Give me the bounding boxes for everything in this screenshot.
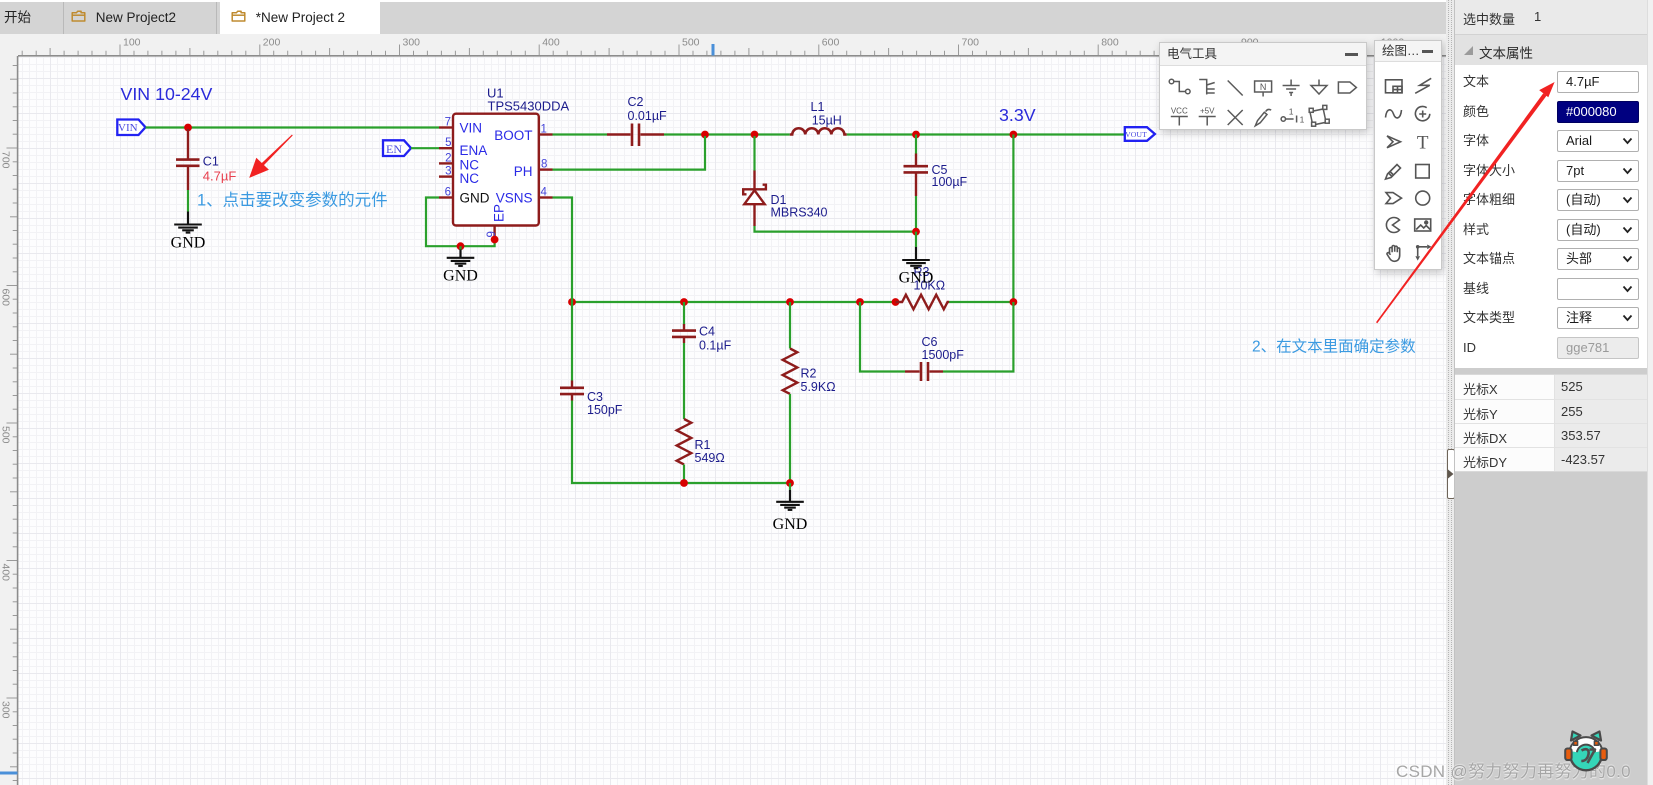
ground GND2	[443, 246, 478, 284]
wire C6 branch	[860, 302, 905, 372]
net port EN	[383, 140, 411, 156]
net port VIN	[117, 120, 145, 136]
pin 3 NC stub	[439, 175, 453, 177]
wire L1 to VOUT	[847, 133, 1125, 135]
pin 1 BOOT stub	[539, 133, 553, 135]
svg-text:1: 1	[1289, 107, 1294, 117]
junction R2 tap	[786, 298, 794, 306]
pin 7 VIN stub	[439, 126, 453, 128]
pin 6 GND stub	[439, 196, 453, 198]
junction VSNS corner	[568, 298, 576, 306]
pin 5 ENA stub	[439, 147, 453, 149]
wire BOOT to C2	[553, 133, 608, 135]
wire C5 to ground node	[915, 196, 917, 232]
junction R3 left	[892, 298, 900, 306]
wire C2 to L1	[664, 133, 790, 135]
junction at C1 tap	[184, 124, 192, 132]
resistor R1	[677, 419, 692, 464]
ground GND4	[773, 483, 808, 533]
pin 8 PH stub	[539, 168, 553, 170]
annotation red arrow 1	[249, 135, 293, 178]
capacitor C1	[176, 129, 200, 190]
wire VIN rail	[146, 126, 440, 128]
ground GND3	[899, 232, 934, 287]
junction R3 right	[1010, 298, 1018, 306]
pin 4 VSNS stub	[539, 196, 553, 198]
wire rail to R2	[789, 302, 791, 349]
capacitor C3	[560, 381, 584, 401]
wire C3 to bottom rail	[572, 401, 684, 484]
junction C5 ground node	[912, 228, 920, 236]
capacitor C6	[905, 362, 943, 381]
IC U1 TPS5430DDA body	[453, 114, 539, 226]
svg-text:T: T	[1417, 132, 1429, 153]
tab bar	[0, 0, 1446, 34]
wire 3.3V riser	[1012, 135, 1014, 303]
wire C6 to riser	[943, 302, 1013, 372]
pin 9 EP stub	[493, 226, 495, 240]
wire R3 to 3.3V riser	[949, 301, 1013, 303]
wire feedback rail	[572, 301, 896, 303]
pin 2 NC stub	[439, 162, 453, 164]
junction D1 tap	[751, 131, 759, 139]
net port VOUT	[1125, 127, 1155, 141]
junction 3.3V divider tap	[1010, 131, 1018, 139]
svg-text:1: 1	[1300, 115, 1305, 125]
junction C4 tap	[680, 298, 688, 306]
wire C4 to R1	[683, 343, 685, 419]
junction C6 tap	[856, 298, 864, 306]
annotation red arrow 2	[1376, 82, 1555, 323]
capacitor C4	[672, 324, 696, 343]
resistor R3	[896, 295, 950, 310]
wire EN to U1	[411, 147, 439, 149]
wire D1 to output ground node	[755, 226, 917, 232]
junction R2 bottom	[786, 479, 794, 487]
wire VSNS feedback	[553, 198, 573, 303]
wire PH node to D1	[753, 136, 755, 171]
wire PH pin riser	[553, 136, 706, 170]
wire rail to C3	[571, 302, 573, 381]
diode D1 MBRS340	[743, 171, 766, 227]
wire R1 to bottom rail	[683, 465, 685, 484]
wire R2 to bottom rail	[684, 394, 790, 483]
ground GND1	[171, 212, 206, 252]
junction C5 tap	[912, 131, 920, 139]
wire output to C5	[915, 135, 917, 155]
inductor L1	[790, 128, 847, 134]
svg-text:N: N	[1260, 82, 1267, 92]
capacitor C2	[607, 124, 664, 147]
resistor R2	[783, 349, 798, 394]
junction GND tap	[457, 242, 465, 250]
junction PH node	[701, 131, 709, 139]
wire U1 GND loop	[426, 198, 495, 247]
capacitor C5	[904, 154, 929, 197]
svg-text:+5V: +5V	[1200, 107, 1215, 116]
wire C1 to ground	[187, 190, 189, 212]
junction EP	[491, 236, 499, 244]
svg-text:VCC: VCC	[1171, 107, 1188, 116]
junction R1 bottom	[680, 479, 688, 487]
wire rail to C4	[683, 302, 685, 325]
